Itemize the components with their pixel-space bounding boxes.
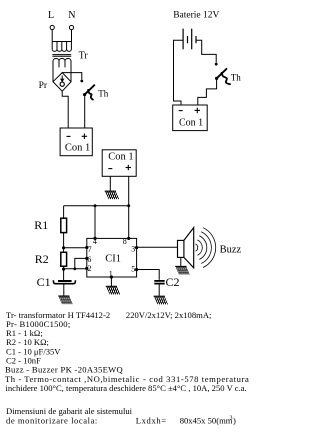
- connector Con 1 (battery): [173, 105, 208, 131]
- wire N to transformer: [71, 30, 73, 42]
- resistor R1: [34, 218, 66, 233]
- node L: [48, 10, 54, 30]
- wire secondary right leg: [70, 65, 72, 82]
- thermal contact Th (battery): [215, 69, 241, 84]
- wire secondary left leg: [52, 65, 54, 82]
- svg-text:R2: R2: [35, 252, 49, 266]
- wire buzzer to ground: [180, 257, 182, 266]
- resistor R2: [35, 252, 67, 266]
- svg-text:Th: Th: [98, 89, 108, 99]
- svg-text:C2: C2: [166, 275, 180, 289]
- thermal contact Th (mains): [83, 85, 109, 99]
- transformer Tr: [52, 42, 71, 68]
- wire C1 to ground: [63, 285, 65, 296]
- op-amp/IC CI1: [85, 237, 138, 279]
- wire battery left to Con1 -: [174, 40, 184, 105]
- connector Con 1 (mains): [60, 128, 92, 156]
- battery B1 plates: [183, 29, 196, 50]
- wire branch to pin 6: [75, 258, 87, 268]
- wire R2 to node: [63, 266, 65, 280]
- supply bus wire: [64, 205, 129, 207]
- wire Con1 + down to supply bus and pin 8: [128, 176, 130, 238]
- wire pin 5 to C2: [137, 270, 160, 280]
- wire pin 1 to ground: [110, 277, 112, 286]
- wire L to transformer: [51, 30, 53, 42]
- svg-text:Con 1: Con 1: [179, 118, 203, 129]
- svg-text:C1: C1: [37, 275, 51, 289]
- svg-text:80x45x 50(mm: 80x45x 50(mm: [180, 415, 233, 425]
- node fixed contact (battery Th): [215, 63, 218, 66]
- capacitor C2: [154, 275, 179, 289]
- svg-text:Th: Th: [231, 73, 241, 83]
- svg-text:Con 1: Con 1: [108, 152, 133, 163]
- wire Th to Con1 +: [198, 80, 217, 105]
- svg-text:220V/2x12V; 2x108mA;: 220V/2x12V; 2x108mA;: [126, 310, 212, 320]
- ground (buzzer): [172, 266, 192, 274]
- svg-text:Buzz: Buzz: [220, 245, 242, 256]
- wire Con1 - to ground: [109, 176, 111, 191]
- svg-text:de monitorizare locala:: de monitorizare locala:: [6, 415, 98, 425]
- junction R1/R2/pin7: [62, 246, 65, 249]
- svg-text:5: 5: [131, 264, 135, 273]
- wire bus to R1: [63, 206, 65, 218]
- wire pin 3 to buzzer: [137, 246, 178, 248]
- svg-text:L: L: [48, 10, 54, 21]
- node fixed contact (mains Th): [80, 80, 83, 83]
- wire bridge - output to Con1 -: [62, 91, 68, 128]
- ground (pin 1): [102, 286, 122, 294]
- svg-text:8: 8: [123, 237, 127, 246]
- svg-text:N: N: [68, 10, 75, 21]
- svg-text:inchidere 100°C, temperatura d: inchidere 100°C, temperatura deschidere …: [6, 383, 247, 393]
- junction bus/pin4: [94, 204, 97, 207]
- svg-text:Tr: Tr: [79, 50, 89, 61]
- ground (C2): [150, 296, 170, 304]
- wire Th to Con1 +: [84, 96, 86, 128]
- svg-text:Con 1: Con 1: [65, 142, 90, 153]
- ground (Con1 minus): [101, 191, 121, 199]
- svg-text:Pr: Pr: [39, 81, 48, 91]
- wire C2 to ground: [158, 285, 160, 296]
- buzzer Buzz: [178, 228, 242, 268]
- svg-text:Lxdxh=: Lxdxh=: [136, 415, 167, 425]
- svg-text:Baterie 12V: Baterie 12V: [173, 10, 219, 20]
- wire battery right to thermal contact: [196, 40, 216, 63]
- wire bus to pin 4: [94, 206, 96, 239]
- junction bus/pin8: [127, 204, 130, 207]
- wire bridge + output to thermal contact: [62, 73, 82, 80]
- node N: [68, 10, 75, 30]
- pin markers: [85, 246, 88, 249]
- wire node to pin 2: [64, 268, 87, 270]
- svg-text:3: 3: [131, 244, 135, 253]
- capacitor C1: [37, 275, 76, 289]
- ground (C1): [55, 296, 75, 304]
- junction R2/C1/pin2: [62, 268, 65, 271]
- junction pin6 branch: [73, 267, 76, 270]
- svg-text:7: 7: [88, 245, 92, 254]
- svg-text:CI1: CI1: [105, 253, 121, 264]
- component list text: [5, 310, 249, 425]
- wire node to pin 7: [64, 247, 87, 249]
- bridge rectifier Pr: [39, 73, 71, 92]
- wire R1 to node: [63, 233, 65, 253]
- svg-text:R1: R1: [34, 218, 48, 232]
- svg-text:): ): [233, 415, 236, 425]
- connector Con 1 (board side): [102, 150, 136, 177]
